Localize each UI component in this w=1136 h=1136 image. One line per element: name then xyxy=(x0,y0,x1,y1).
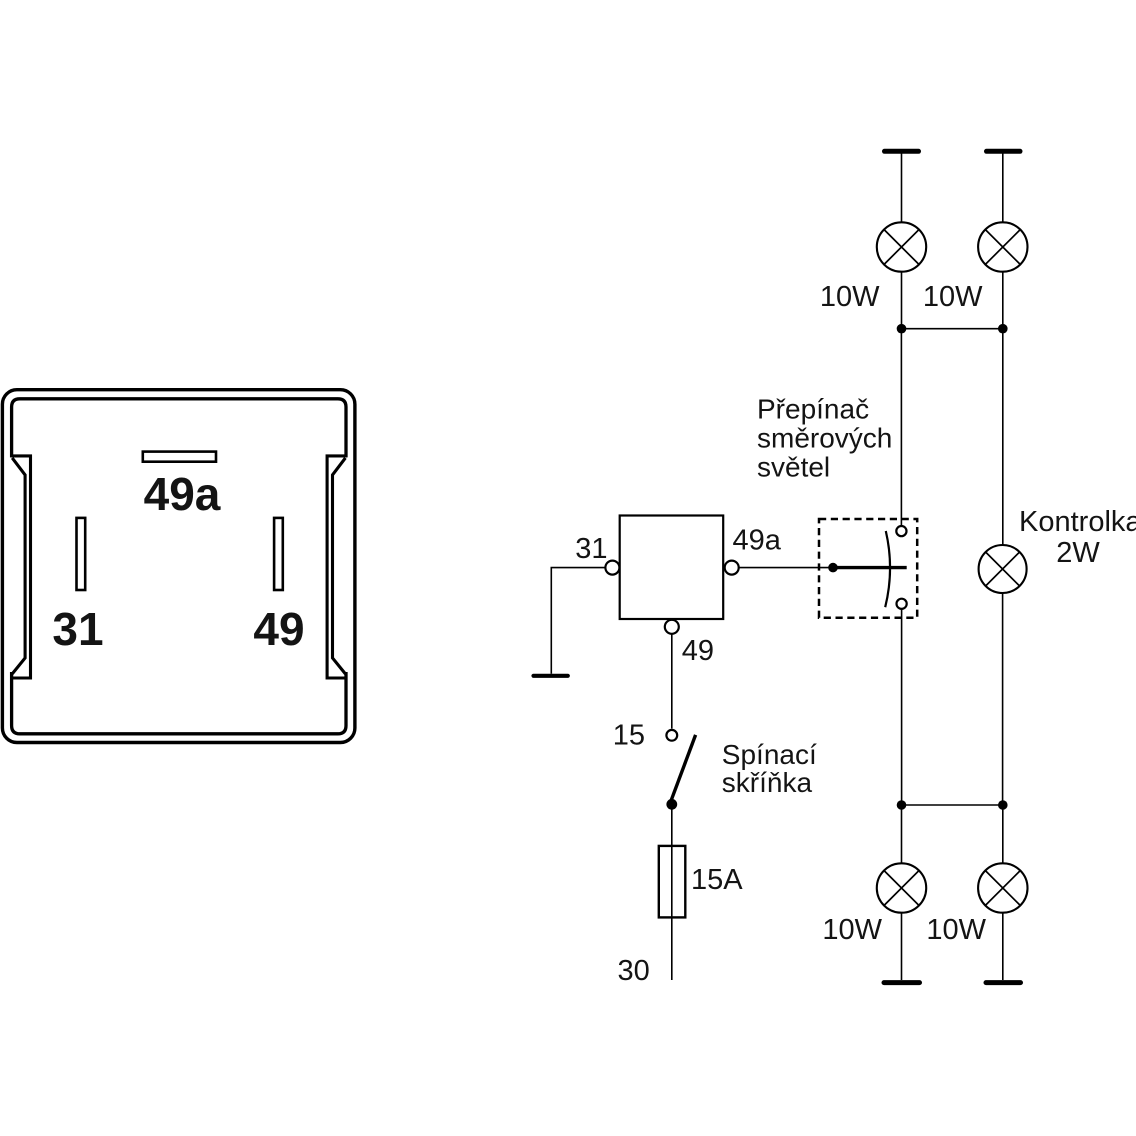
wire node A to node B (top tie) xyxy=(902,328,1003,330)
pin slot 49a (top blade) xyxy=(143,452,216,462)
svg-text:Spínací: Spínací xyxy=(722,739,817,770)
switch S1 wiper (thick bar) xyxy=(833,566,907,569)
svg-text:49: 49 xyxy=(253,603,304,655)
junction node A xyxy=(897,324,907,334)
svg-text:10W: 10W xyxy=(822,914,882,946)
svg-text:směrových: směrových xyxy=(757,423,892,454)
terminal 49 of relay xyxy=(665,620,679,634)
switch S1 travel arc xyxy=(885,531,890,607)
switch S1 lower contact xyxy=(897,599,907,609)
svg-text:10W: 10W xyxy=(923,281,983,313)
relay K1 pinout inner case lower part xyxy=(12,672,346,734)
battery/supply terminal bar left xyxy=(885,149,919,154)
wire switch lower contact down to node C xyxy=(901,609,903,805)
flasher relay U1 (schematic box) xyxy=(620,516,724,620)
lamp E1 front-left 10W xyxy=(877,222,926,271)
ignition switch S2 blade (open) xyxy=(671,735,696,801)
wire lamp E4 to ground bar xyxy=(1002,913,1004,980)
wire terminal31 to ground xyxy=(551,568,605,674)
junction node B xyxy=(998,324,1008,334)
wire node B down to indicator lamp xyxy=(1002,329,1004,546)
ground bar G3 (right lamp) xyxy=(986,980,1021,985)
indicator lamp H1 Kontrolka 2W xyxy=(979,545,1027,593)
wire switch to fuse xyxy=(671,804,673,980)
battery/supply terminal bar right xyxy=(987,149,1021,154)
junction node D xyxy=(998,800,1008,810)
turn signal switch S1 dashed enclosure xyxy=(819,519,917,618)
svg-text:15: 15 xyxy=(613,720,645,752)
svg-text:světel: světel xyxy=(757,452,830,483)
wire node C to node D (bottom tie) xyxy=(902,804,1003,806)
svg-text:49a: 49a xyxy=(733,525,782,557)
wire terminal 49 down to contact 15 xyxy=(671,634,673,729)
svg-text:2W: 2W xyxy=(1056,537,1100,569)
svg-text:49: 49 xyxy=(682,635,714,667)
switch S1 upper contact xyxy=(896,526,906,536)
ignition switch S2 pivot dot xyxy=(666,799,677,810)
terminal 49a of relay xyxy=(725,561,739,575)
wire supply to lamp E1 xyxy=(901,151,903,222)
lamp E3 rear-left 10W xyxy=(877,863,926,912)
svg-text:15A: 15A xyxy=(691,864,743,896)
relay K1 pinout inner case upper part xyxy=(12,399,346,458)
switch S1 common pivot dot xyxy=(828,563,838,573)
svg-text:Kontrolka: Kontrolka xyxy=(1019,506,1136,538)
wire lamp E3 to ground bar xyxy=(901,913,903,980)
wire terminal 49a to switch common xyxy=(739,567,833,569)
wire node A down to switch upper contact xyxy=(900,329,902,526)
svg-text:skříňka: skříňka xyxy=(722,767,813,798)
relay case right retaining tab xyxy=(327,456,347,678)
lamp E4 rear-right 10W xyxy=(978,863,1027,912)
svg-text:Přepínač: Přepínač xyxy=(757,394,869,425)
relay case left retaining tab xyxy=(11,456,31,678)
svg-text:10W: 10W xyxy=(820,281,880,313)
pin slot 49 (right blade) xyxy=(274,518,283,590)
fuse F1 body xyxy=(659,846,686,918)
wire lamp E1 to node A xyxy=(901,272,903,329)
svg-text:49a: 49a xyxy=(144,468,221,520)
junction node C xyxy=(897,800,907,810)
ground G1 bar xyxy=(534,674,568,678)
wire indicator lamp down to node D xyxy=(1002,593,1004,805)
svg-text:31: 31 xyxy=(52,603,103,655)
ground bar G2 (left lamp) xyxy=(884,980,920,985)
relay case left tab chamfer xyxy=(12,458,25,674)
pin slot 31 (left blade) xyxy=(77,518,86,590)
lamp E2 front-right 10W xyxy=(978,222,1027,271)
terminal 31 of relay xyxy=(605,561,619,575)
relay case right tab chamfer xyxy=(333,458,346,674)
svg-text:30: 30 xyxy=(618,955,650,987)
contact 15 circle of ignition switch S2 xyxy=(666,730,677,741)
wire lamp E2 to node B xyxy=(1002,272,1004,329)
svg-text:10W: 10W xyxy=(926,914,986,946)
relay K1 pinout (pictorial view) outer case xyxy=(2,390,355,743)
wire node D to lamp E4 xyxy=(1002,805,1004,863)
svg-text:31: 31 xyxy=(575,533,607,565)
wire supply to lamp E2 xyxy=(1002,151,1004,222)
wire node C to lamp E3 xyxy=(901,805,903,863)
